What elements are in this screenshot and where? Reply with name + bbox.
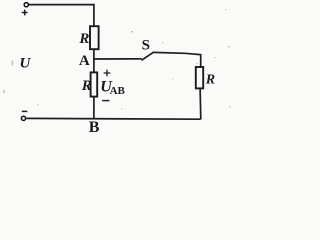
wire switch to right corner and down [153, 52, 201, 67]
terminal - (bottom left) [21, 116, 25, 120]
svg-text:S: S [142, 37, 150, 53]
wire top from + terminal to corner and down into resistor R (top) [29, 5, 94, 27]
wire between top resistor and middle resistor [93, 49, 95, 72]
bottom wire to - terminal [26, 117, 201, 120]
svg-text:R: R [205, 72, 215, 87]
svg-text:U: U [20, 56, 32, 72]
wire right resistor down to bottom corner [199, 88, 202, 119]
resistor R1 (top) body [90, 26, 99, 49]
svg-text:B: B [89, 119, 100, 135]
svg-text:R: R [78, 31, 89, 47]
minus mark of UAB [102, 100, 109, 102]
svg-text:AB: AB [110, 85, 126, 97]
svg-text:R: R [81, 78, 92, 94]
wire node A to switch [94, 58, 142, 60]
terminal + (top left) [24, 3, 28, 7]
minus polarity mark (bottom left) [22, 110, 28, 112]
svg-text:A: A [79, 53, 90, 69]
scan speckles [3, 9, 230, 109]
switch S blade [142, 52, 154, 60]
resistor R3 (right) body [196, 67, 203, 88]
wire middle resistor down to node B [93, 97, 95, 119]
resistor R2 (middle) body [91, 72, 98, 96]
plus polarity mark (top left) [22, 10, 28, 16]
plus mark of UAB [104, 70, 111, 77]
